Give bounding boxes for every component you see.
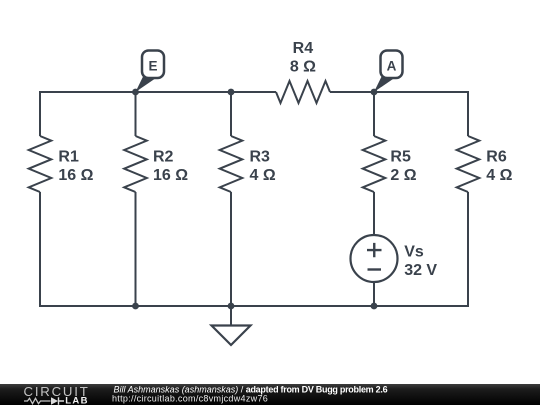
svg-text:8 Ω: 8 Ω	[290, 58, 316, 75]
logo diode	[51, 397, 58, 404]
wire top-left (node E rail)	[40, 92, 276, 136]
svg-text:16 Ω: 16 Ω	[58, 167, 93, 184]
svg-text:LAB: LAB	[65, 396, 89, 405]
svg-text:R3: R3	[250, 149, 271, 166]
wire ground stem	[230, 306, 232, 326]
resistor R4	[276, 81, 330, 103]
svg-text:A: A	[387, 59, 397, 74]
resistor R2	[124, 136, 147, 192]
resistor R6	[457, 136, 480, 192]
wire Vs to bottom rail	[373, 282, 375, 306]
svg-text:R5: R5	[390, 149, 411, 166]
node E junction dot	[132, 89, 139, 96]
ground	[212, 326, 251, 346]
footer bar	[0, 384, 540, 405]
wire left branch bottom lead and bottom rail	[40, 192, 468, 306]
node A flag box	[381, 51, 403, 79]
wire R5 to Vs	[373, 192, 375, 235]
svg-text:R2: R2	[153, 149, 174, 166]
resistor R5	[363, 136, 386, 192]
junction dot R2 bottom	[132, 303, 139, 310]
node E flag tail	[136, 73, 155, 93]
wire top-right (node A rail)	[330, 92, 468, 136]
logo resistor zigzag	[24, 398, 51, 403]
svg-text:R1: R1	[58, 149, 79, 166]
wire R3 bottom lead	[230, 192, 232, 306]
voltage source Vs	[351, 235, 398, 282]
node A junction dot	[371, 89, 378, 96]
node A flag tail	[374, 73, 393, 93]
wire R3 top lead	[230, 92, 232, 136]
junction dot ground node	[228, 303, 235, 310]
svg-text:R6: R6	[486, 149, 507, 166]
resistor R1	[29, 136, 52, 192]
wire R5 top lead	[373, 92, 375, 136]
svg-text:R4: R4	[293, 40, 314, 57]
svg-text:4 Ω: 4 Ω	[250, 167, 276, 184]
svg-text:4 Ω: 4 Ω	[486, 167, 512, 184]
wire R2 top lead	[135, 92, 137, 136]
svg-text:16 Ω: 16 Ω	[153, 167, 188, 184]
node E flag box	[142, 51, 164, 79]
svg-text:32 V: 32 V	[404, 262, 437, 279]
svg-text:2 Ω: 2 Ω	[390, 167, 416, 184]
junction dot Vs bottom	[371, 303, 378, 310]
wire R2 bottom lead	[135, 192, 137, 306]
svg-text:E: E	[148, 59, 157, 74]
svg-text:http://circuitlab.com/c8vmjcdw: http://circuitlab.com/c8vmjcdw4zw76	[112, 394, 268, 404]
svg-text:Vs: Vs	[404, 243, 424, 260]
resistor R3	[220, 136, 243, 192]
node junction dot R3 top	[228, 89, 235, 96]
